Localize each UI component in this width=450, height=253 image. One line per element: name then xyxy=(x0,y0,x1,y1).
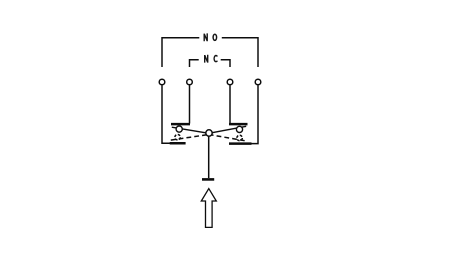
actuator bar xyxy=(202,178,214,181)
wire terminal3 to right NC contact xyxy=(229,85,231,123)
NC contact bar left xyxy=(171,123,190,126)
NO contact bar right xyxy=(229,142,252,145)
terminal 1 xyxy=(159,79,165,85)
NO bracket left half xyxy=(162,38,199,67)
label NO xyxy=(204,33,216,41)
terminal 2 xyxy=(187,79,193,85)
movable roller right xyxy=(236,126,242,132)
NO contact bar left xyxy=(170,142,186,145)
actuator arrow xyxy=(201,189,216,228)
contact arm left (solid, NC position) xyxy=(172,127,209,133)
NC contact bar right xyxy=(229,123,248,126)
terminal 4 xyxy=(255,79,261,85)
label NC xyxy=(205,55,218,63)
dashed roller right (actuated position) xyxy=(237,135,242,140)
terminal 3 xyxy=(227,79,233,85)
movable roller left xyxy=(176,126,182,132)
NO bracket right half xyxy=(222,38,258,67)
wire terminal4 to right NO contact xyxy=(251,85,258,143)
NC bracket left half xyxy=(190,60,199,67)
NC bracket right half xyxy=(221,60,230,67)
wire terminal2 to left NC contact xyxy=(189,85,191,123)
dashed roller left (actuated position) xyxy=(175,135,180,140)
dashed arm left (actuated position) xyxy=(171,135,209,141)
contact arm right (solid, NC position) xyxy=(209,126,246,133)
pivot xyxy=(206,130,212,136)
actuator rod xyxy=(208,137,210,179)
dashed arm right (actuated position) xyxy=(209,135,247,142)
wire terminal1 to left NO contact xyxy=(162,85,170,143)
